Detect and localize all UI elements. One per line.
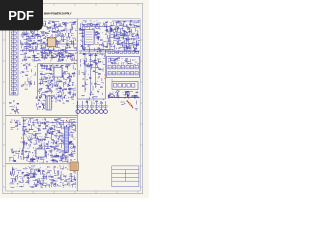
label B-T278 <box>109 37 110 39</box>
wire LM2-W17 <box>34 74 36 76</box>
wire A-W123 <box>58 52 60 56</box>
label C-T204 <box>59 91 60 93</box>
wire EL-W5 <box>13 120 15 122</box>
wire B2-W39 <box>126 39 128 43</box>
transistor E-Q312 <box>71 147 73 149</box>
wire C-W94 <box>54 83 56 86</box>
wire EL2-W9 <box>20 155 21 157</box>
wire C-W138 <box>52 83 54 87</box>
wire E-W120 <box>50 150 52 154</box>
wire E-W163 <box>34 143 38 145</box>
wire B2-W14 <box>136 22 139 24</box>
wire E-W223 <box>59 135 61 138</box>
table row2 mark D55m <box>131 72 133 74</box>
wire B-W145 <box>84 27 86 29</box>
label RC-T44 <box>117 60 118 62</box>
diode B-D243 <box>127 48 128 49</box>
table row2 mark D54m <box>127 72 129 74</box>
label RC-T52 <box>132 59 133 61</box>
wire A-W41 <box>47 50 50 52</box>
label A-T406 <box>48 52 49 54</box>
label D2-T31 <box>96 86 97 88</box>
wire C-W52 <box>47 85 49 88</box>
label A-T435 <box>28 27 29 29</box>
label A-T403 <box>46 26 47 28</box>
wire Ctop-W16 <box>41 56 46 58</box>
wire A-W97 <box>40 45 42 47</box>
wire RC-W14 <box>138 63 140 65</box>
wire D2-W12 <box>85 82 87 85</box>
wire C-W132 <box>41 76 43 80</box>
label B2-T58 <box>121 22 122 24</box>
wire E-W172 <box>38 138 40 142</box>
cluster D top rail wire <box>79 52 105 54</box>
resistor B-R226 <box>110 28 112 31</box>
diode A-D334 <box>71 35 72 36</box>
wire A-W174 <box>67 43 69 45</box>
wire E-W205 <box>52 156 56 158</box>
cluster E top rail <box>22 117 77 119</box>
wire B-W154 <box>138 39 140 41</box>
table2 part D64 <box>132 84 135 88</box>
wire A-W208 <box>67 33 69 37</box>
wire A-W50 <box>21 45 23 48</box>
label D-T63 <box>102 61 103 63</box>
wire D-W38 <box>90 59 92 61</box>
wire A-W247 <box>51 28 53 31</box>
label C-T216 <box>68 82 69 84</box>
wire B-W66 <box>138 42 140 45</box>
inspection dot a <box>128 97 129 98</box>
wire B-W144 <box>130 29 132 33</box>
wire A-W145 <box>53 25 55 29</box>
wire A-W218 <box>37 33 40 35</box>
line filter capacitor CX16 <box>11 84 16 86</box>
label A-T376 <box>41 57 42 59</box>
wire A-W277 <box>41 47 46 49</box>
resistor A-R355 <box>29 35 31 38</box>
wire B-W193 <box>95 27 97 29</box>
label B-T305 <box>94 30 95 32</box>
resistor A-R356 <box>29 46 31 49</box>
wire C-W135 <box>68 92 71 94</box>
wire E-W228 <box>66 141 68 144</box>
diode C-D195 <box>65 95 66 96</box>
wire E-W82 <box>61 143 63 145</box>
wire C-W127 <box>52 97 54 99</box>
wire E-W134 <box>74 149 76 152</box>
wire E-W235 <box>51 142 54 144</box>
wire B-W137 <box>79 33 84 35</box>
wire B2-W18 <box>135 49 137 52</box>
wire B-W203 <box>127 46 130 48</box>
resistor A-R351 <box>72 54 74 57</box>
wire A-W108 <box>58 58 60 62</box>
label B-T284 <box>83 43 84 45</box>
wire E-W272 <box>30 140 32 143</box>
net label PS-ON <box>84 24 90 26</box>
wire RD-W15 <box>125 91 127 95</box>
wire C-W3 <box>39 78 42 80</box>
snubber capacitor C37 <box>136 51 139 53</box>
wire A-W194 <box>31 31 33 33</box>
wire RD-W6 <box>110 92 113 94</box>
T101 winding stubs <box>45 98 53 107</box>
wire RD-W14 <box>114 96 116 98</box>
resistor A-R280 <box>25 58 27 61</box>
resistor A-R335 <box>59 55 61 58</box>
capacitor A-C305 <box>49 30 50 33</box>
wire D-W14 <box>84 64 88 66</box>
wire E-W36 <box>59 123 63 125</box>
wire E-W221 <box>67 128 69 132</box>
label D2-T26 <box>93 94 94 96</box>
label RD-T51 <box>115 91 116 93</box>
label A-T370 <box>73 34 74 36</box>
label D-T60 <box>83 63 84 65</box>
label A-T375 <box>66 56 67 58</box>
wire A-W84 <box>33 41 36 43</box>
resistor B-R222 <box>106 28 108 31</box>
wire E-W199 <box>28 121 30 123</box>
label A-T414 <box>64 25 65 27</box>
resistor Cbot2-R12 <box>66 99 68 102</box>
wire A-W226 <box>62 54 64 57</box>
wire LM-W4 <box>17 108 20 110</box>
label D-T69 <box>102 54 103 56</box>
wire A-W68 <box>20 40 22 44</box>
wire E-W20 <box>50 132 53 134</box>
wire B-W16 <box>112 49 116 51</box>
wire A-W37 <box>52 25 55 27</box>
wire A-W81 <box>38 53 40 55</box>
wire E-W42 <box>56 145 59 147</box>
wire A-W30 <box>69 45 71 48</box>
wire B-W141 <box>111 27 113 31</box>
wire B-W153 <box>126 48 128 52</box>
wire E-W128 <box>69 141 72 143</box>
label C-T252 <box>48 79 49 81</box>
wire E-W14 <box>55 145 59 147</box>
wire C-W45 <box>64 95 66 98</box>
wire E-W251 <box>40 153 42 155</box>
wire RD-W18 <box>125 94 129 96</box>
wire RC-W20 <box>110 63 112 65</box>
wire B-W100 <box>115 51 119 53</box>
label Ctop-T37 <box>70 53 71 55</box>
wire A-W129 <box>75 20 76 22</box>
wire Ctop-W18 <box>61 57 63 59</box>
fuse F101 <box>12 93 16 94</box>
wire E-W39 <box>57 150 61 152</box>
label A-T388 <box>38 34 39 36</box>
label RD-T50 <box>123 93 124 95</box>
label D-T58 <box>99 53 100 55</box>
wire E-W203 <box>47 137 50 139</box>
wire C-W129 <box>41 93 43 97</box>
diode A-D323 <box>45 36 46 37</box>
wire E-W143 <box>51 160 55 162</box>
wire C-W13 <box>67 66 69 70</box>
wire B2-W9 <box>138 27 141 29</box>
wire C-W141 <box>59 79 62 81</box>
cluster E bus wire <box>22 118 24 160</box>
resistor C-R182 <box>65 88 67 91</box>
wire B-W9 <box>107 44 109 48</box>
wire C-W69 <box>41 93 45 95</box>
wire D2-W10 <box>97 83 101 85</box>
wire RD-W27 <box>108 95 110 98</box>
wire E-W157 <box>68 154 71 156</box>
resistor B-R249 <box>88 36 90 39</box>
label D-T74 <box>90 60 91 62</box>
wire RC-W18 <box>138 58 140 60</box>
wire C-W134 <box>56 71 58 74</box>
label A-T385 <box>56 42 57 44</box>
wire E-W71 <box>23 144 25 149</box>
wire E-W18 <box>28 144 30 146</box>
wire E-W102 <box>30 129 34 131</box>
wire B-W52 <box>107 42 111 44</box>
label A-T391 <box>58 59 59 61</box>
wire A-W36 <box>44 23 46 25</box>
label B-T323 <box>126 47 127 49</box>
label C-T209 <box>40 82 41 84</box>
wire B-W174 <box>91 25 93 27</box>
label A-T419 <box>27 48 28 50</box>
wire E-W65 <box>64 156 66 160</box>
wire D-W8 <box>96 62 98 65</box>
wire C-W67 <box>71 96 73 98</box>
wire E-W191 <box>66 161 68 162</box>
transistor C-Q177 <box>48 95 50 97</box>
wire B-W130 <box>118 21 121 23</box>
wire C-W73 <box>55 85 57 87</box>
wire E-W250 <box>58 132 62 134</box>
wire A-W183 <box>60 50 62 55</box>
wire A-W96 <box>30 30 32 34</box>
wire A-W34 <box>51 55 53 59</box>
capacitor A-C304 <box>22 32 23 35</box>
label D-T62 <box>96 63 97 65</box>
label B-T303 <box>109 35 110 37</box>
label B-T307 <box>93 42 94 44</box>
wire A-W228 <box>76 52 77 54</box>
wire RC-W12 <box>108 60 110 63</box>
label C-T210 <box>44 73 45 75</box>
label B-T287 <box>121 25 122 27</box>
resistor E-R302 <box>45 151 47 154</box>
wire E-W55 <box>57 141 59 143</box>
label B-T332 <box>88 46 89 48</box>
wire CR-W9 <box>87 98 90 100</box>
resistor B-R233 <box>87 32 89 35</box>
wire D-W32 <box>89 65 91 67</box>
wire A-W18 <box>64 28 66 31</box>
resistor LM2-R19 <box>29 81 31 84</box>
table row2 mark D56m <box>136 72 138 74</box>
resistor B-R239 <box>82 35 84 38</box>
wire D2-W5 <box>92 86 94 91</box>
wire C-W77 <box>62 72 66 74</box>
resistor B-R224 <box>134 49 136 52</box>
transistor E-Q307 <box>71 123 73 125</box>
resistor A-R313 <box>33 55 35 58</box>
wire Cbot-W12 <box>35 103 37 107</box>
table row1 rectifier D44 <box>126 66 129 69</box>
label A-T400 <box>24 24 25 26</box>
wire A-W1 <box>45 44 47 49</box>
wire B2-W30 <box>128 44 130 47</box>
wire C-W43 <box>47 95 51 97</box>
resistor D-R55 <box>83 53 85 56</box>
label B2-T65 <box>129 21 130 23</box>
wire C-W111 <box>68 97 70 99</box>
wire B-W3 <box>90 35 92 37</box>
wire D-W10 <box>84 61 86 66</box>
wire D-W22 <box>82 71 84 73</box>
label C-T208 <box>67 92 68 94</box>
wire B-W35 <box>104 23 106 27</box>
wire B-W110 <box>97 37 100 39</box>
resistor D2-R20 <box>89 77 91 80</box>
resistor B-R263 <box>106 46 108 49</box>
label A-T386 <box>54 43 55 45</box>
label B-T288 <box>102 32 103 34</box>
wire A-W201 <box>41 52 45 54</box>
wire A-W162 <box>61 58 63 61</box>
wire C-W82 <box>72 92 74 97</box>
label A-T450 <box>42 22 43 24</box>
wire LM2-W3 <box>27 70 29 72</box>
wire A-W175 <box>70 31 72 33</box>
wire E-W57 <box>62 140 64 144</box>
label A-T413 <box>54 54 55 56</box>
diode C-D161 <box>68 84 69 85</box>
wire LM2-W10 <box>33 89 35 91</box>
wire B-W138 <box>89 47 91 49</box>
wire E-W248 <box>58 122 61 124</box>
wire Ctop-W2 <box>59 56 61 58</box>
resistor C-R180 <box>60 87 62 90</box>
diode B-D229 <box>137 31 138 32</box>
label RD-T48 <box>124 95 125 97</box>
wire D-W34 <box>96 67 99 69</box>
wire E-W106 <box>40 157 43 159</box>
wire E-W217 <box>59 132 61 134</box>
wire A-W266 <box>53 21 55 23</box>
wire RD-W20 <box>123 97 125 100</box>
wire B2-W37 <box>123 38 127 40</box>
wire B2-W13 <box>133 22 138 24</box>
label B2-T60 <box>119 37 120 39</box>
resistor B-R261 <box>117 40 119 43</box>
wire A-W265 <box>70 54 72 57</box>
wire A-W192 <box>21 25 23 27</box>
wire E-W44 <box>56 148 59 150</box>
capacitor A-C290 <box>63 40 64 43</box>
wire A-W82 <box>49 49 53 51</box>
resistor D-R56 <box>95 54 97 57</box>
label RC-T38 <box>111 62 112 64</box>
wire C-W128 <box>69 76 72 78</box>
primary rail wire 2 <box>20 50 77 52</box>
wire E-W91 <box>44 153 46 156</box>
wire E-W147 <box>70 134 72 137</box>
wire C-W151 <box>63 73 66 75</box>
wire B-W17 <box>88 51 90 54</box>
label B-T279 <box>90 22 91 24</box>
label A-T436 <box>26 58 27 60</box>
wire LM2-W5 <box>26 66 28 70</box>
label B-T335 <box>96 20 97 22</box>
label A-T417 <box>21 44 22 46</box>
resistor B-R227 <box>106 21 108 24</box>
diode D2-D18 <box>97 91 98 92</box>
label A-T408 <box>34 49 35 51</box>
wire A-W104 <box>31 60 33 62</box>
diode EL2-D17 <box>19 151 20 152</box>
resistor C-R154 <box>50 73 52 76</box>
label C-T203 <box>52 64 53 66</box>
wire E-W214 <box>70 118 74 120</box>
wire A-W58 <box>59 60 61 62</box>
wire B-W65 <box>117 33 121 35</box>
wire B-W58 <box>138 51 140 54</box>
wire C-W130 <box>42 74 45 76</box>
resistor A-R329 <box>31 35 33 38</box>
wire C-W95 <box>69 92 71 95</box>
label C-T254 <box>48 75 49 77</box>
wire A-W188 <box>40 27 42 29</box>
wire RD-W25 <box>135 95 137 97</box>
resistor B-R262 <box>93 23 95 26</box>
label A-T447 <box>75 28 76 30</box>
wire E-W273 <box>49 128 51 133</box>
wire E-W81 <box>24 123 26 125</box>
wire B-W182 <box>127 39 130 41</box>
resistor EL2-R15 <box>14 160 16 163</box>
wire E-W158 <box>31 158 35 160</box>
label A-T377 <box>22 25 23 27</box>
wire A-W114 <box>45 52 47 55</box>
wire Cbot-W8 <box>43 99 45 101</box>
resistor D-R49 <box>98 72 100 75</box>
wire D-W3 <box>101 53 103 55</box>
diode A-D337 <box>68 33 69 34</box>
wire A-W259 <box>36 37 38 39</box>
wire C-W146 <box>41 73 43 75</box>
wire Ctop-W24 <box>46 53 48 55</box>
wire B-W8 <box>113 42 115 45</box>
wire B-W75 <box>108 38 110 42</box>
wire E-W15 <box>23 126 26 128</box>
cluster D drop wire 2 <box>90 53 92 95</box>
wire B-W169 <box>127 35 129 38</box>
wire A-W263 <box>26 43 28 48</box>
label B-T333 <box>116 30 117 32</box>
wire A-W98 <box>26 41 28 43</box>
wire B-W115 <box>135 45 139 47</box>
primary rail wire 1 <box>20 43 77 45</box>
wire RC-W11 <box>130 59 132 63</box>
wire B-W205 <box>110 25 114 27</box>
label C-T236 <box>69 75 70 77</box>
capacitor E-C300 <box>49 132 50 135</box>
label C-T198 <box>69 93 70 95</box>
table row1 rectifier D46 <box>135 66 138 69</box>
wire E-W139 <box>33 119 37 121</box>
